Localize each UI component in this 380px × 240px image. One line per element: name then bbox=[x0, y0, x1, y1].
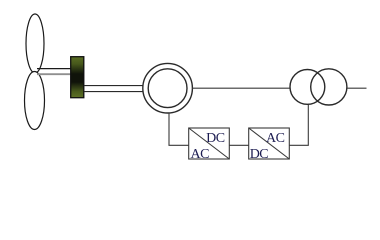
svg-text:AC: AC bbox=[191, 147, 210, 162]
wire: U2 up to transformer bbox=[289, 104, 308, 145]
high-speed shaft upper line bbox=[84, 85, 143, 87]
converter U1 box (AC/DC rectifier) bbox=[189, 128, 230, 159]
svg-text:AC: AC bbox=[266, 131, 285, 146]
turbine blade B-top (upper rotor blade ellipse) bbox=[26, 14, 44, 73]
high-speed shaft lower line bbox=[84, 91, 143, 93]
gearbox (green block) bbox=[71, 57, 84, 98]
transformer T1 primary winding circle bbox=[290, 70, 325, 105]
turbine blade B-bottom (lower rotor blade ellipse) bbox=[25, 72, 45, 130]
svg-text:DC: DC bbox=[206, 131, 225, 146]
low-speed shaft lower line bbox=[37, 73, 72, 75]
svg-text:DC: DC bbox=[250, 147, 269, 162]
low-speed shaft upper line bbox=[37, 68, 72, 70]
wire: grid output bbox=[347, 87, 367, 89]
wire: U1 to U2 bbox=[229, 144, 248, 146]
wire: generator bottom drop bbox=[169, 113, 189, 145]
generator G inner circle bbox=[148, 69, 187, 108]
generator G outer circle bbox=[143, 63, 193, 113]
transformer T1 secondary winding circle bbox=[311, 69, 347, 105]
converter U2 box (DC/AC inverter) bbox=[249, 128, 290, 159]
wire: generator to transformer bbox=[192, 87, 290, 89]
